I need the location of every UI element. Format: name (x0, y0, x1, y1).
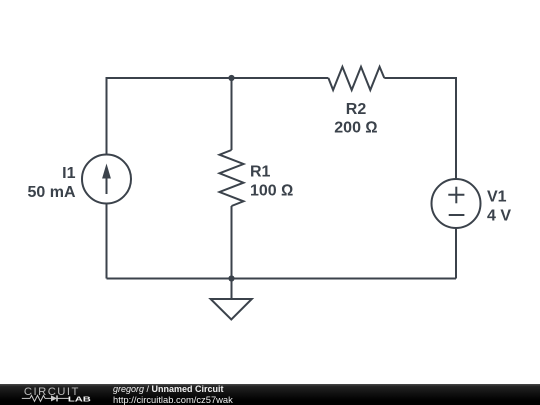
node at R1 top junction (228, 75, 234, 81)
svg-text:R2: R2 (346, 101, 367, 118)
svg-text:I1: I1 (62, 165, 75, 182)
ground (211, 279, 252, 320)
current source I1 (82, 155, 131, 204)
svg-text:4 V: 4 V (487, 208, 511, 225)
wire top-right segment (384, 78, 456, 79)
wire left (top of I1) (106, 78, 108, 154)
footer bar (0, 384, 540, 405)
node at ground junction (228, 275, 234, 281)
svg-text:LAB: LAB (68, 397, 91, 404)
CircuitLab logo (21, 385, 95, 404)
wire bottom (107, 278, 457, 280)
wire right (top of V1) (455, 78, 457, 179)
wire left (below I1) (106, 204, 108, 279)
svg-text:200 Ω: 200 Ω (334, 120, 377, 137)
wire R1 branch bottom (231, 206, 233, 279)
svg-text:50 mA: 50 mA (27, 184, 75, 201)
svg-text:V1: V1 (487, 188, 507, 205)
wire right (below V1) (455, 229, 457, 279)
voltage source V1 (432, 179, 481, 228)
resistor R2 (328, 67, 384, 90)
svg-text:100 Ω: 100 Ω (250, 182, 293, 199)
wire top-left segment (107, 78, 329, 79)
svg-text:R1: R1 (250, 164, 271, 181)
resistor R1 (220, 150, 244, 206)
wire R1 branch top (231, 78, 233, 150)
